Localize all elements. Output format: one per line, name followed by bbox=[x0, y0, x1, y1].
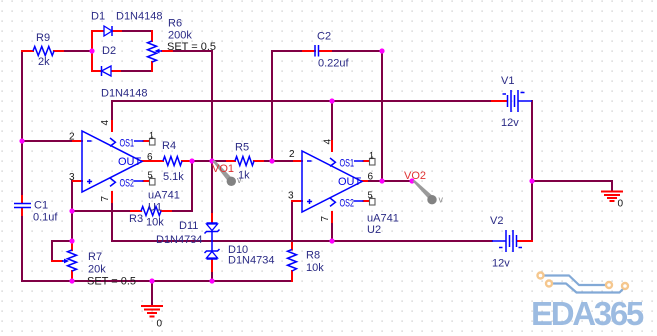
U1 OS2 wedge bbox=[110, 178, 115, 186]
svg-text:EDA365: EDA365 bbox=[531, 295, 644, 332]
wire bottom ground stem bbox=[151, 281, 153, 306]
potentiometer R7 zigzag bbox=[68, 250, 77, 271]
U1 minus mark bbox=[87, 140, 92, 142]
svg-text:4: 4 bbox=[100, 120, 111, 126]
U1 pin1 terminal square bbox=[150, 136, 156, 145]
diode D1 bar bbox=[111, 26, 113, 36]
pin stub U1 OS2 bbox=[144, 180, 150, 182]
pin stub R6 top bbox=[151, 31, 153, 41]
svg-text:OS1: OS1 bbox=[340, 158, 355, 170]
R6 wiper arrowhead bbox=[155, 49, 160, 54]
svg-text:0.22uf: 0.22uf bbox=[318, 58, 350, 70]
pin stub R3 right bbox=[161, 210, 171, 212]
potentiometer R6 zigzag bbox=[148, 41, 157, 62]
wire right ground stem bbox=[611, 181, 613, 191]
op-amp U1 triangle bbox=[82, 131, 142, 192]
pin stub D1 left bbox=[92, 30, 104, 32]
svg-text:12v: 12v bbox=[501, 117, 519, 129]
wire R3 corner up to R4 node bbox=[191, 161, 193, 211]
svg-text:2: 2 bbox=[69, 132, 75, 143]
pin stub U2 out bbox=[362, 180, 367, 182]
svg-text:2: 2 bbox=[289, 149, 295, 160]
svg-text:D2: D2 bbox=[102, 45, 116, 57]
junction dot pin3 R3 node bbox=[69, 208, 74, 213]
pin stub R7 top bbox=[71, 241, 73, 250]
svg-text:uA741: uA741 bbox=[148, 190, 180, 202]
svg-text:D1: D1 bbox=[91, 11, 105, 23]
wire R4 node to zener node bbox=[192, 160, 212, 162]
zener D11 triangle bbox=[207, 224, 218, 231]
R7 wiper arrowhead bbox=[64, 259, 69, 264]
wire U2 pin7 vertical bbox=[331, 222, 333, 241]
svg-text:7: 7 bbox=[100, 196, 111, 202]
U1 OS2 blue lead bbox=[134, 180, 144, 182]
svg-text:12v: 12v bbox=[492, 258, 510, 270]
svg-text:SET = 0.5: SET = 0.5 bbox=[87, 276, 136, 288]
resistor R3 zigzag bbox=[141, 207, 161, 216]
pin stub U2 OS1 bbox=[364, 160, 370, 162]
ground bottom bars bbox=[142, 306, 162, 317]
svg-text:1k: 1k bbox=[238, 170, 250, 182]
svg-text:D1N4734: D1N4734 bbox=[228, 255, 274, 267]
zener D11 top edge bbox=[207, 222, 218, 224]
svg-text:V1: V1 bbox=[501, 75, 514, 87]
wire D2 branch to R6 bottom corner bbox=[120, 70, 152, 72]
junction dot right rail out bbox=[529, 178, 534, 183]
wire U1 pin2 input bbox=[22, 140, 73, 142]
junction dot diode bracket bbox=[89, 48, 94, 53]
svg-text:OS2: OS2 bbox=[120, 178, 135, 190]
pin stub U1 pin2 bbox=[73, 140, 82, 142]
svg-text:U2: U2 bbox=[367, 224, 381, 236]
wire C2 right horizontal bbox=[331, 50, 382, 52]
svg-text:OS1: OS1 bbox=[120, 138, 135, 150]
junction dot VO1 node bbox=[209, 158, 214, 163]
svg-text:D1N4148: D1N4148 bbox=[116, 11, 162, 23]
svg-text:3: 3 bbox=[288, 191, 294, 202]
ground right bars bbox=[602, 192, 622, 202]
capacitor C1 plates bbox=[14, 204, 31, 208]
wire C2 right leg down to U2 output bbox=[381, 51, 383, 181]
svg-text:5: 5 bbox=[148, 170, 153, 180]
pin stub D2 left bbox=[92, 70, 101, 72]
junction dot U1 pin2 node bbox=[19, 138, 24, 143]
junction dot U2 pin7 bbox=[329, 238, 334, 243]
svg-text:SET = 0.5: SET = 0.5 bbox=[167, 41, 216, 53]
svg-text:6: 6 bbox=[147, 152, 153, 163]
pin stub C1 top bbox=[21, 196, 23, 203]
svg-text:5.1k: 5.1k bbox=[163, 171, 184, 183]
pin stub R6 wiper bbox=[162, 50, 172, 52]
resistor R8 zigzag bbox=[288, 250, 297, 272]
svg-text:1: 1 bbox=[369, 151, 374, 161]
op-amp U2 triangle bbox=[302, 151, 362, 212]
junction dot R7 bottom bbox=[69, 278, 74, 283]
U1 plus mark bbox=[87, 179, 92, 184]
svg-text:5: 5 bbox=[368, 190, 373, 200]
pin stub R9 right bbox=[54, 50, 63, 52]
pin stub U1 out / R4 left bbox=[142, 160, 163, 162]
battery V2 plates bbox=[499, 230, 522, 252]
pin stub D11 top bbox=[211, 214, 213, 223]
pin stub U1 pin4 bbox=[111, 121, 113, 131]
pin stub R7 bottom bbox=[71, 271, 73, 281]
wire long horizontal y=101 (U1 pin4 to V1) bbox=[112, 100, 492, 102]
wire U2 pin4 vertical bbox=[331, 101, 333, 141]
wire U2 output to VO2 node bbox=[367, 180, 412, 182]
svg-text:0: 0 bbox=[618, 199, 624, 210]
wire R3 line left bbox=[72, 210, 131, 212]
wire zener chain lower bbox=[211, 271, 213, 281]
junction dot VO2 node bbox=[409, 178, 414, 183]
U2 pin5 terminal square bbox=[370, 196, 376, 205]
pin stub R9 left bbox=[22, 50, 33, 52]
junction dot ground bus bbox=[149, 278, 154, 283]
junction dot C2 right top bbox=[379, 48, 384, 53]
svg-text:4: 4 bbox=[323, 139, 334, 145]
svg-text:R9: R9 bbox=[36, 32, 50, 44]
zener D10 triangle bbox=[207, 252, 218, 259]
svg-text:C1: C1 bbox=[34, 200, 48, 212]
pin stub U2 pin3 bbox=[292, 200, 302, 202]
svg-text:200k: 200k bbox=[168, 30, 192, 42]
svg-text:D1N4148: D1N4148 bbox=[101, 88, 147, 100]
diode D2 bar bbox=[101, 66, 103, 76]
wire between zeners bbox=[211, 232, 213, 252]
wire node to R7 top bbox=[71, 211, 73, 241]
wire bottom bus y=281 bbox=[22, 280, 292, 282]
pin stub C2 right bbox=[319, 50, 331, 52]
svg-text:D11: D11 bbox=[179, 220, 198, 232]
U2 OS1 blue lead bbox=[354, 160, 364, 162]
pin stub U1 pin3 bbox=[73, 180, 82, 182]
svg-text:V2: V2 bbox=[490, 215, 503, 227]
svg-text:0: 0 bbox=[157, 319, 163, 330]
svg-text:10k: 10k bbox=[306, 262, 324, 274]
svg-text:3: 3 bbox=[69, 172, 75, 183]
svg-text:R4: R4 bbox=[162, 140, 176, 152]
junction dot zener bottom bbox=[209, 278, 214, 283]
svg-text:R5: R5 bbox=[235, 142, 249, 154]
pin stub R7 wiper bbox=[52, 260, 62, 262]
U1 OS1 wedge bbox=[110, 138, 115, 146]
R7 wiper arrow line bbox=[62, 260, 66, 262]
pin stub V1 left bbox=[492, 100, 507, 102]
pin stub D2 right bbox=[111, 70, 120, 72]
pin stub R8 bottom bbox=[291, 271, 293, 281]
U2 OS2 blue lead bbox=[354, 200, 364, 202]
svg-text:R8: R8 bbox=[306, 250, 320, 262]
pin stub U1 OS1 bbox=[144, 140, 150, 142]
pin stub D1 right bbox=[112, 30, 121, 32]
EDA365 watermark logo traces bbox=[544, 276, 623, 293]
probe VO1 bbox=[212, 160, 242, 186]
svg-text:VO2: VO2 bbox=[404, 170, 426, 182]
wire U1 pin4 vertical upper bbox=[111, 101, 113, 121]
capacitor C2 plates bbox=[315, 45, 319, 57]
zener D10 cathode bar bbox=[205, 249, 220, 253]
svg-text:20k: 20k bbox=[88, 264, 106, 276]
wire R5 right to C2 node bbox=[263, 160, 294, 162]
pin stub diode bracket vertical bbox=[91, 31, 93, 71]
wire D1 branch to R6 top corner bbox=[121, 30, 152, 32]
diode D1 triangle bbox=[104, 26, 112, 36]
svg-text:OUT: OUT bbox=[118, 156, 142, 168]
svg-text:6: 6 bbox=[368, 172, 374, 183]
wire C2 left horizontal bbox=[272, 50, 303, 52]
junction dot R4 right bbox=[189, 158, 194, 163]
pin stub U2 pin4 bbox=[331, 141, 333, 151]
pin stub V2 right bbox=[517, 240, 532, 242]
U1 OS1 blue lead bbox=[134, 140, 144, 142]
pin stub R5 left bbox=[227, 160, 235, 162]
svg-text:OUT: OUT bbox=[338, 176, 362, 188]
pin stub R4 right bbox=[182, 160, 192, 162]
U2 OS2 wedge bbox=[330, 198, 335, 206]
junction dot U2 pin4 bbox=[329, 98, 334, 103]
pin stub U1 pin7 bbox=[111, 192, 113, 202]
wire R3 line right bbox=[171, 210, 192, 212]
wire left rail bottom (C1 to bottom bus) bbox=[21, 209, 23, 282]
svg-text:2k: 2k bbox=[38, 56, 50, 68]
pin stub R6 bottom bbox=[151, 62, 153, 71]
svg-text:D1N4734: D1N4734 bbox=[156, 234, 202, 246]
EDA365 watermark pads bbox=[538, 273, 629, 290]
pin stub D10 bottom bbox=[211, 259, 213, 271]
svg-text:VO1: VO1 bbox=[212, 163, 234, 175]
svg-text:U1: U1 bbox=[148, 202, 162, 214]
U1 pin5 terminal square bbox=[150, 176, 156, 185]
battery V2 left lead bbox=[492, 240, 506, 242]
probe VO2 bbox=[412, 180, 443, 204]
wire R7 wiper bracket bbox=[52, 241, 72, 261]
wire C2 left leg down to node bbox=[271, 51, 273, 161]
svg-text:0.1uf: 0.1uf bbox=[33, 212, 58, 224]
wire right rail x=532 (V1 to V2) bbox=[531, 101, 533, 241]
svg-text:OS2: OS2 bbox=[340, 198, 355, 210]
pin stub R3 left bbox=[131, 210, 141, 212]
wire U1 pin3 vertical bbox=[71, 181, 73, 211]
resistor R9 zigzag bbox=[33, 47, 54, 56]
wire V- rail y=241 bbox=[112, 240, 492, 242]
pin stub U2 pin2 bbox=[294, 160, 302, 162]
wire U2 pin3 vertical to R8 bbox=[291, 201, 293, 243]
svg-text:1: 1 bbox=[149, 131, 154, 141]
svg-text:7: 7 bbox=[320, 216, 331, 222]
zener D11 cathode bar bbox=[205, 230, 220, 234]
R6 wiper arrow line bbox=[158, 50, 162, 52]
junction dot U2 out bbox=[379, 178, 384, 183]
resistor R4 zigzag bbox=[163, 157, 182, 166]
wire rail to right ground bbox=[532, 180, 612, 182]
wire zener chain upper bbox=[211, 161, 213, 214]
pin stub R8 top bbox=[291, 243, 293, 250]
resistor R5 zigzag bbox=[235, 157, 254, 166]
wire zener node to R5 bbox=[212, 160, 227, 162]
pin stub C1 bottom bbox=[21, 209, 23, 216]
wire left rail top (R9 to C1) bbox=[21, 51, 23, 203]
svg-text:v: v bbox=[439, 195, 444, 205]
pin stub U2 OS2 bbox=[364, 200, 370, 202]
U2 pin1 terminal square bbox=[370, 156, 376, 165]
zener D10 bottom edge bbox=[207, 258, 218, 260]
svg-text:R6: R6 bbox=[168, 18, 182, 30]
diode D2 triangle bbox=[102, 66, 112, 76]
U2 minus mark bbox=[307, 160, 312, 162]
wire R9 right to diode junction bbox=[63, 50, 92, 52]
svg-text:uA741: uA741 bbox=[367, 213, 399, 225]
svg-text:10k: 10k bbox=[146, 217, 164, 229]
battery V1 plates bbox=[503, 90, 525, 112]
junction dot R5 right C2 bbox=[269, 158, 274, 163]
wire vertical x=212 from wiper down to node VO1 bbox=[211, 51, 213, 161]
svg-text:R3: R3 bbox=[129, 213, 143, 225]
wire R6 wiper to vertical x=212 bbox=[172, 50, 212, 52]
U2 OS1 wedge bbox=[330, 158, 335, 166]
svg-text:R7: R7 bbox=[88, 251, 102, 263]
svg-text:C2: C2 bbox=[317, 31, 331, 43]
pin stub U2 pin7 bbox=[331, 212, 333, 222]
pin stub R5 right bbox=[254, 160, 263, 162]
pin stub C2 left bbox=[303, 50, 315, 52]
U2 plus mark bbox=[307, 199, 312, 204]
wire U1 pin7 down bbox=[111, 202, 113, 241]
junction dot R7 top bbox=[69, 238, 74, 243]
battery V1 right lead bbox=[518, 100, 532, 102]
